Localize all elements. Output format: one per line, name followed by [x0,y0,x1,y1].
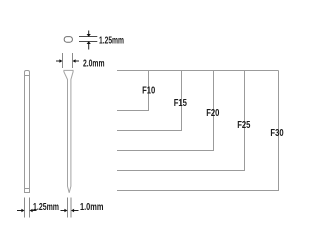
F20 outline [117,71,214,151]
F25 outline [117,71,245,171]
head width dimension 2.0mm extension lines [63,53,73,68]
brad nail (right, with flared head) [64,70,73,192]
svg-text:1.25mm: 1.25mm [33,202,59,213]
svg-text:1.25mm: 1.25mm [99,35,124,46]
pin width dimension arrows [17,209,37,213]
brad shank dimension 1.0mm extension lines [68,198,72,218]
F30 outline [117,71,279,191]
pin width dimension 1.25mm extension lines [25,198,30,218]
head thickness dimension lines (1.25mm) [79,37,97,42]
svg-text:F30: F30 [270,128,284,139]
svg-text:2.0mm: 2.0mm [83,58,105,69]
head thickness dimension vertical with arrows [87,31,91,50]
svg-text:F20: F20 [206,108,220,119]
F10 outline [117,71,149,111]
brad shank dimension arrows [61,209,79,213]
svg-text:F15: F15 [174,98,188,109]
svg-text:F25: F25 [237,120,251,131]
svg-text:1.0mm: 1.0mm [80,202,104,213]
head width dimension arrows [56,59,79,63]
pin nail (left, headless pin) [25,71,30,193]
F15 outline [117,71,182,131]
length chart top line [117,71,279,191]
brad head top-view oval [64,37,72,43]
svg-text:F10: F10 [142,86,156,97]
